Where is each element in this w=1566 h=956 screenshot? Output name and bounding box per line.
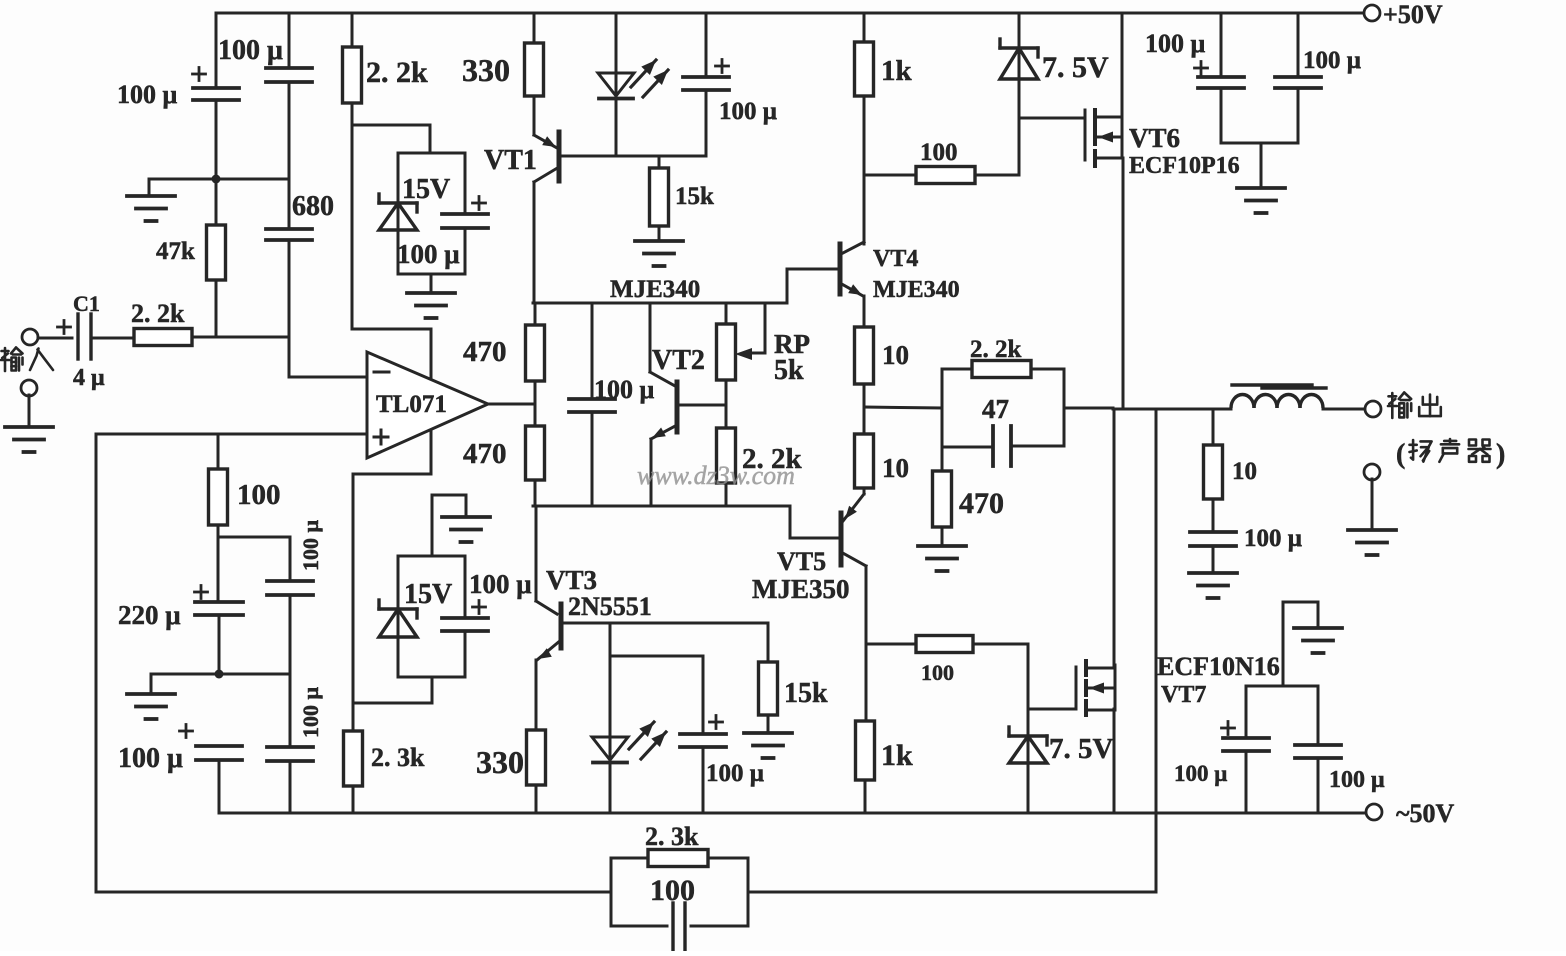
label 7.5V lower: [1049, 733, 1114, 765]
label 470 lower: [463, 438, 507, 470]
svg-text:www.dz3w.com: www.dz3w.com: [637, 461, 795, 490]
wire 289 rail top: [288, 13, 291, 68]
wire feedback bottom right: [748, 891, 1156, 894]
label + of 100u top-left: [193, 68, 206, 81]
svg-text:47k: 47k: [156, 238, 195, 265]
label 15V lower: [404, 579, 452, 610]
wire output line: [1113, 408, 1231, 411]
resistor 10 zobel: [1204, 409, 1223, 532]
label 330 top: [462, 52, 510, 88]
wire C1 to 2.2k: [91, 337, 134, 340]
label MJE340 VT4: [873, 277, 960, 303]
label 100u top-left: [117, 80, 178, 109]
capacitor 220u: [195, 602, 243, 615]
diode zener 15V upper: [379, 194, 417, 230]
ground upper box: [407, 293, 455, 318]
node junction top-left: [212, 175, 221, 184]
terminal input signal: [22, 329, 38, 345]
svg-text:ECF10N16: ECF10N16: [1157, 652, 1280, 681]
label 100u middle: [594, 375, 655, 404]
label plus input: [374, 430, 388, 444]
svg-text:100: 100: [921, 660, 954, 685]
svg-text:220 μ: 220 μ: [118, 600, 181, 630]
terminal speaker return: [1364, 464, 1380, 480]
ground 470 output: [918, 546, 966, 571]
svg-text:100 μ: 100 μ: [706, 760, 764, 787]
wire VT2 base: [677, 404, 726, 407]
wire lower box outline: [398, 556, 465, 677]
wire VT1 collector: [533, 182, 536, 303]
resistor 1k top: [855, 13, 874, 244]
label 100u second: [218, 35, 283, 66]
label MJE340 VT1: [610, 276, 700, 303]
resistor 2.2k input: [134, 329, 192, 346]
resistor 330 top: [525, 13, 544, 135]
ground 15k lower: [744, 733, 792, 758]
transistor VT1: [534, 132, 559, 182]
node junction lower-left: [215, 670, 224, 679]
wire VT7 source to rail: [1113, 709, 1116, 813]
ground bottom right: [1294, 628, 1342, 653]
potentiometer RP 5k: [717, 303, 736, 405]
wire lower box bottom tap: [431, 677, 434, 703]
diode LED upper: [598, 13, 668, 156]
wire 47 branch: [942, 446, 1064, 447]
wire feedback box bottom: [611, 925, 748, 928]
svg-text:2N5551: 2N5551: [568, 592, 652, 621]
wire input ground stem: [28, 395, 31, 427]
label shu (input): [1, 348, 23, 372]
capacitor 100u br B: [1295, 686, 1341, 813]
label + of 100u VT1: [716, 60, 729, 73]
svg-text:47: 47: [982, 394, 1009, 424]
resistor 1k bottom: [856, 721, 875, 813]
label ~50V: [1396, 799, 1455, 828]
wire VT7 drain: [1113, 409, 1116, 665]
label ECF10N16: [1157, 652, 1280, 681]
resistor 2.2k output: [942, 361, 1064, 378]
label yang speaker: [1410, 440, 1432, 462]
svg-text:4 μ: 4 μ: [73, 365, 105, 391]
label TL071: [376, 391, 447, 418]
label 2N5551: [568, 592, 652, 621]
svg-text:100 μ: 100 μ: [594, 375, 655, 404]
svg-text:100 μ: 100 μ: [117, 80, 178, 109]
ground lower-left: [127, 694, 175, 719]
label 1k top: [881, 55, 913, 87]
wire feedback box right: [747, 858, 750, 926]
label shu (output): [1388, 393, 1411, 418]
wire input to C1: [38, 337, 72, 340]
wire +50V top supply rail: [216, 12, 1372, 15]
label 5k: [774, 355, 804, 386]
wire Vminus rail: [353, 430, 431, 703]
ground top-left: [127, 196, 175, 221]
transistor VT7 ECF10N16: [1076, 661, 1115, 715]
label 100u br A: [1174, 761, 1227, 786]
svg-text:10: 10: [882, 453, 909, 483]
capacitor 100u rotated lower: [267, 747, 313, 761]
label 4u: [73, 365, 105, 391]
capacitor 680: [266, 229, 312, 240]
ground lower box: [442, 517, 490, 542]
terminal +50V: [1364, 5, 1380, 21]
capacitor 100u top-left: [193, 88, 239, 100]
wire speaker ground stem: [1371, 479, 1374, 530]
label 470 output: [959, 487, 1004, 520]
wire noninverting input: [96, 433, 367, 436]
label C1: [73, 291, 100, 316]
ground rail caps: [1237, 188, 1285, 213]
wire -50V bottom supply rail: [219, 812, 1374, 815]
svg-text:ECF10P16: ECF10P16: [1129, 153, 1240, 179]
resistor 470 lower: [526, 404, 545, 506]
label speaker paren close: [1496, 439, 1505, 470]
label MJE350: [752, 574, 850, 604]
svg-text:~50V: ~50V: [1396, 799, 1455, 828]
wire 2.2k to inverting node: [192, 336, 289, 339]
label 2.2k opamp supply: [366, 56, 428, 89]
label 2.2k input: [131, 299, 185, 328]
svg-text:15V: 15V: [402, 174, 450, 205]
label sheng speaker: [1439, 439, 1459, 462]
transistor VT5: [841, 494, 866, 566]
svg-text:10: 10: [882, 340, 909, 370]
svg-text:VT4: VT4: [873, 246, 918, 272]
diode LED lower: [592, 623, 666, 813]
label minus input: [374, 371, 389, 374]
label 220u: [118, 600, 181, 630]
label 100u upper box: [397, 239, 460, 269]
wire upper box to ground: [430, 274, 433, 293]
capacitor 100u zobel: [1190, 532, 1236, 573]
svg-text:470: 470: [959, 487, 1004, 520]
label 100 lower gate: [921, 660, 954, 685]
wire feedback box left: [610, 858, 613, 926]
label 100u rail B: [1303, 47, 1361, 74]
svg-text:100 μ: 100 μ: [719, 98, 777, 125]
svg-text:5k: 5k: [774, 355, 804, 386]
svg-text:470: 470: [463, 438, 507, 470]
wire 2.2k to 15V box top: [352, 125, 430, 153]
svg-text:C1: C1: [73, 291, 100, 316]
wire junction row lower: [219, 673, 290, 676]
ground zobel: [1189, 573, 1237, 598]
label 10 upper: [882, 340, 909, 370]
resistor 15k upper: [650, 156, 669, 241]
label ru (input): [30, 349, 53, 371]
wire RP wiper: [735, 303, 765, 360]
svg-text:100: 100: [237, 479, 281, 511]
wire VT7 gate entry: [1028, 708, 1076, 711]
svg-text:100 μ: 100 μ: [469, 569, 532, 599]
svg-text:100 μ: 100 μ: [218, 35, 283, 66]
resistor 47k: [207, 179, 226, 337]
ground 15k upper: [635, 241, 683, 266]
wire Vminus to box bottom: [353, 702, 432, 705]
resistor 2.2k VT2: [717, 405, 736, 506]
wire junction row: [216, 178, 289, 181]
svg-text:10: 10: [1232, 458, 1257, 485]
wire VT2 emitter: [650, 439, 653, 506]
label 15k upper: [675, 183, 714, 210]
wire zener column top: [1018, 13, 1021, 48]
capacitor 100u br A: [1223, 686, 1269, 813]
inductor output coil: [1231, 385, 1326, 408]
resistor 2.3k feedback: [611, 850, 748, 867]
svg-text:2. 2k: 2. 2k: [366, 56, 428, 89]
label qi speaker: [1469, 440, 1491, 462]
terminal output: [1365, 401, 1381, 417]
wire lower box top hook: [432, 495, 466, 556]
label 470 upper: [463, 336, 507, 368]
svg-text:330: 330: [476, 744, 524, 780]
svg-text:VT3: VT3: [546, 565, 597, 595]
wire VT5 collector: [865, 566, 868, 721]
label 2.3k: [371, 743, 425, 772]
wire VT3 collector: [536, 506, 557, 614]
wire Vplus rail: [352, 125, 431, 380]
svg-text:2. 3k: 2. 3k: [645, 822, 699, 851]
svg-text:100 μ: 100 μ: [1303, 47, 1361, 74]
wire node row lower: [533, 505, 790, 508]
label chu (output): [1419, 395, 1441, 417]
svg-text:100 μ: 100 μ: [1145, 29, 1206, 58]
label 100u lower-left: [118, 743, 183, 774]
label 100 divider: [237, 479, 281, 511]
label 330 bottom: [476, 744, 524, 780]
label 100 upper gate: [920, 139, 958, 166]
svg-text:2. 2k: 2. 2k: [970, 336, 1022, 363]
svg-text:7. 5V: 7. 5V: [1042, 51, 1109, 84]
transistor VT3: [537, 604, 561, 660]
wire VT3 base line: [561, 622, 766, 625]
label 47k: [156, 238, 195, 265]
capacitor 100u middle: [569, 303, 615, 506]
svg-text:): ): [1496, 439, 1505, 470]
svg-text:VT6: VT6: [1129, 123, 1180, 153]
op-amp U1 TL071: [367, 352, 488, 458]
svg-text:1k: 1k: [881, 739, 913, 772]
wire VT6 source to output: [1122, 158, 1125, 409]
capacitor 100 feedback: [673, 903, 685, 951]
svg-text:100 μ: 100 μ: [1174, 761, 1227, 786]
transistor VT6 ECF10P16: [1085, 110, 1123, 166]
svg-text:100 μ: 100 μ: [298, 520, 323, 572]
label watermark: [637, 461, 795, 490]
svg-text:VT7: VT7: [1161, 682, 1206, 708]
resistor 2.2k opamp supply: [343, 13, 362, 125]
label 100u rail A: [1145, 29, 1206, 58]
capacitor 100u second: [266, 68, 312, 82]
wire 220u to junction: [218, 615, 221, 674]
wire junction to ground arm lower: [151, 674, 219, 694]
wire zener column bottom: [1027, 644, 1030, 736]
wire upper box outline: [398, 153, 465, 274]
svg-text:100: 100: [920, 139, 958, 166]
svg-text:MJE350: MJE350: [752, 574, 850, 604]
wire VT6 gate entry: [1019, 117, 1085, 120]
wire mid output node: [864, 407, 942, 408]
resistor 10 lower: [855, 407, 874, 494]
diode zener 7.5V upper: [1000, 39, 1038, 79]
resistor 100 lower gate: [866, 636, 1028, 653]
wire VT1 base line: [559, 155, 706, 158]
wire VT3 emitter: [535, 660, 538, 730]
svg-text:2. 2k: 2. 2k: [131, 299, 185, 328]
label + of C1: [58, 321, 71, 334]
wire opamp output: [488, 403, 535, 406]
label 15V upper: [402, 174, 450, 205]
label ECF10P16: [1129, 153, 1240, 179]
svg-text:TL071: TL071: [376, 391, 447, 418]
wire 100 to caps: [218, 537, 290, 602]
label VT2: [652, 345, 705, 376]
label 2.2k output: [970, 336, 1022, 363]
label + br A: [1222, 722, 1235, 735]
svg-text:VT2: VT2: [652, 345, 705, 376]
svg-text:470: 470: [463, 336, 507, 368]
wire LED inner jog: [610, 655, 703, 658]
label 1k bottom: [881, 739, 913, 772]
label VT7: [1161, 682, 1206, 708]
capacitor 100u upper box: [442, 214, 488, 228]
terminal ~50V: [1366, 804, 1382, 820]
label 15k lower: [784, 678, 828, 709]
svg-text:100: 100: [650, 874, 695, 907]
label VT6: [1129, 123, 1180, 153]
svg-text:15k: 15k: [784, 678, 828, 709]
label + of 100u lower-left: [180, 725, 193, 738]
capacitor 100u rotated upper: [267, 581, 313, 595]
wire rail caps bottom: [1221, 143, 1298, 188]
wire 47 to output: [1064, 369, 1113, 446]
wire inverting drop: [289, 337, 367, 377]
label VT1: [484, 145, 537, 176]
wire zener lower to rail: [1027, 763, 1030, 813]
resistor 2.3k: [344, 703, 363, 813]
resistor 15k lower: [759, 623, 778, 733]
terminal input ground: [21, 380, 37, 396]
svg-text:(: (: [1396, 439, 1405, 470]
svg-text:100 μ: 100 μ: [1329, 767, 1385, 793]
label 7.5V upper: [1042, 51, 1109, 84]
svg-text:VT1: VT1: [484, 145, 537, 176]
svg-text:100 μ: 100 μ: [298, 687, 323, 739]
wire inductor to output terminal: [1323, 408, 1366, 411]
wire feedback left column: [95, 434, 98, 892]
label 100u br B: [1329, 767, 1385, 793]
resistor 470 output: [933, 447, 952, 546]
wire 680 to input line: [288, 240, 291, 337]
capacitor 100u rail B: [1275, 13, 1321, 143]
label 100u VT1: [719, 98, 777, 125]
label +50V: [1383, 0, 1443, 29]
ground input: [5, 427, 53, 452]
transistor VT4: [840, 242, 864, 296]
label + of 100u VT3: [710, 716, 723, 729]
resistor 100 divider: [209, 434, 228, 537]
wire 100u to junction: [215, 100, 218, 179]
svg-text:15V: 15V: [404, 579, 452, 610]
wire VT5 base: [790, 506, 841, 538]
wire br caps top: [1246, 685, 1318, 688]
capacitor 100u VT3: [680, 656, 726, 813]
svg-text:MJE340: MJE340: [873, 277, 960, 303]
label 100 feedback: [650, 874, 695, 907]
label 2.3k feedback: [645, 822, 699, 851]
wire VT4 base: [787, 269, 840, 303]
label VT4: [873, 246, 918, 272]
label 10 lower: [882, 453, 909, 483]
label 100u VT3: [706, 760, 764, 787]
resistor 100 upper gate: [864, 167, 1019, 184]
label 2.2k VT2: [742, 443, 803, 475]
wire VT4 emitter: [863, 296, 866, 327]
svg-text:100 μ: 100 μ: [1244, 525, 1302, 552]
capacitor C1: [78, 314, 91, 359]
label 680: [292, 191, 334, 222]
capacitor 47: [993, 426, 1011, 466]
wire output node vertical: [941, 369, 944, 447]
diode zener 7.5V lower: [1009, 727, 1047, 763]
wire br ground hook: [1283, 602, 1318, 686]
svg-text:7. 5V: 7. 5V: [1049, 733, 1114, 765]
label 100u lower box: [469, 569, 532, 599]
ground speaker: [1348, 530, 1396, 555]
svg-text:15k: 15k: [675, 183, 714, 210]
wire zener to 100: [1018, 79, 1021, 175]
transistor VT2: [651, 382, 677, 439]
resistor 470 upper: [526, 303, 545, 404]
resistor 330 bottom: [527, 730, 546, 813]
label + of 220u: [195, 586, 208, 599]
label 100u rotated upper: [298, 520, 323, 572]
wire feedback bottom left: [96, 891, 611, 894]
wire feedback drop: [1155, 409, 1158, 892]
label 10 zobel: [1232, 458, 1257, 485]
label RP: [774, 329, 810, 359]
label 100u rotated lower: [298, 687, 323, 739]
svg-text:100 μ: 100 μ: [397, 239, 460, 269]
capacitor 100u lower box: [442, 618, 488, 631]
svg-text:MJE340: MJE340: [610, 276, 700, 303]
diode zener 15V lower: [379, 600, 417, 637]
svg-text:330: 330: [462, 52, 510, 88]
label 100u zobel: [1244, 525, 1302, 552]
label + rail A: [1195, 62, 1208, 75]
svg-text:+50V: +50V: [1383, 0, 1443, 29]
capacitor 100u rail A: [1198, 13, 1244, 143]
label speaker paren: [1396, 439, 1405, 470]
svg-text:VT5: VT5: [777, 547, 826, 576]
wire left rail top: [215, 13, 218, 88]
svg-text:2. 3k: 2. 3k: [371, 743, 425, 772]
label + upper box cap: [473, 197, 486, 210]
label + lower box cap: [473, 601, 486, 614]
wire VT6 drain: [1121, 13, 1124, 137]
capacitor 100u VT1 base: [683, 13, 729, 156]
svg-text:100 μ: 100 μ: [118, 743, 183, 774]
label VT5: [777, 547, 826, 576]
wire junction to ground arm: [149, 179, 216, 196]
svg-text:1k: 1k: [881, 55, 913, 87]
resistor 10 upper: [855, 327, 874, 407]
label VT3: [546, 565, 597, 595]
label 47: [982, 394, 1009, 424]
capacitor 100u lower-left: [196, 746, 242, 760]
wire node row upper: [533, 302, 787, 305]
